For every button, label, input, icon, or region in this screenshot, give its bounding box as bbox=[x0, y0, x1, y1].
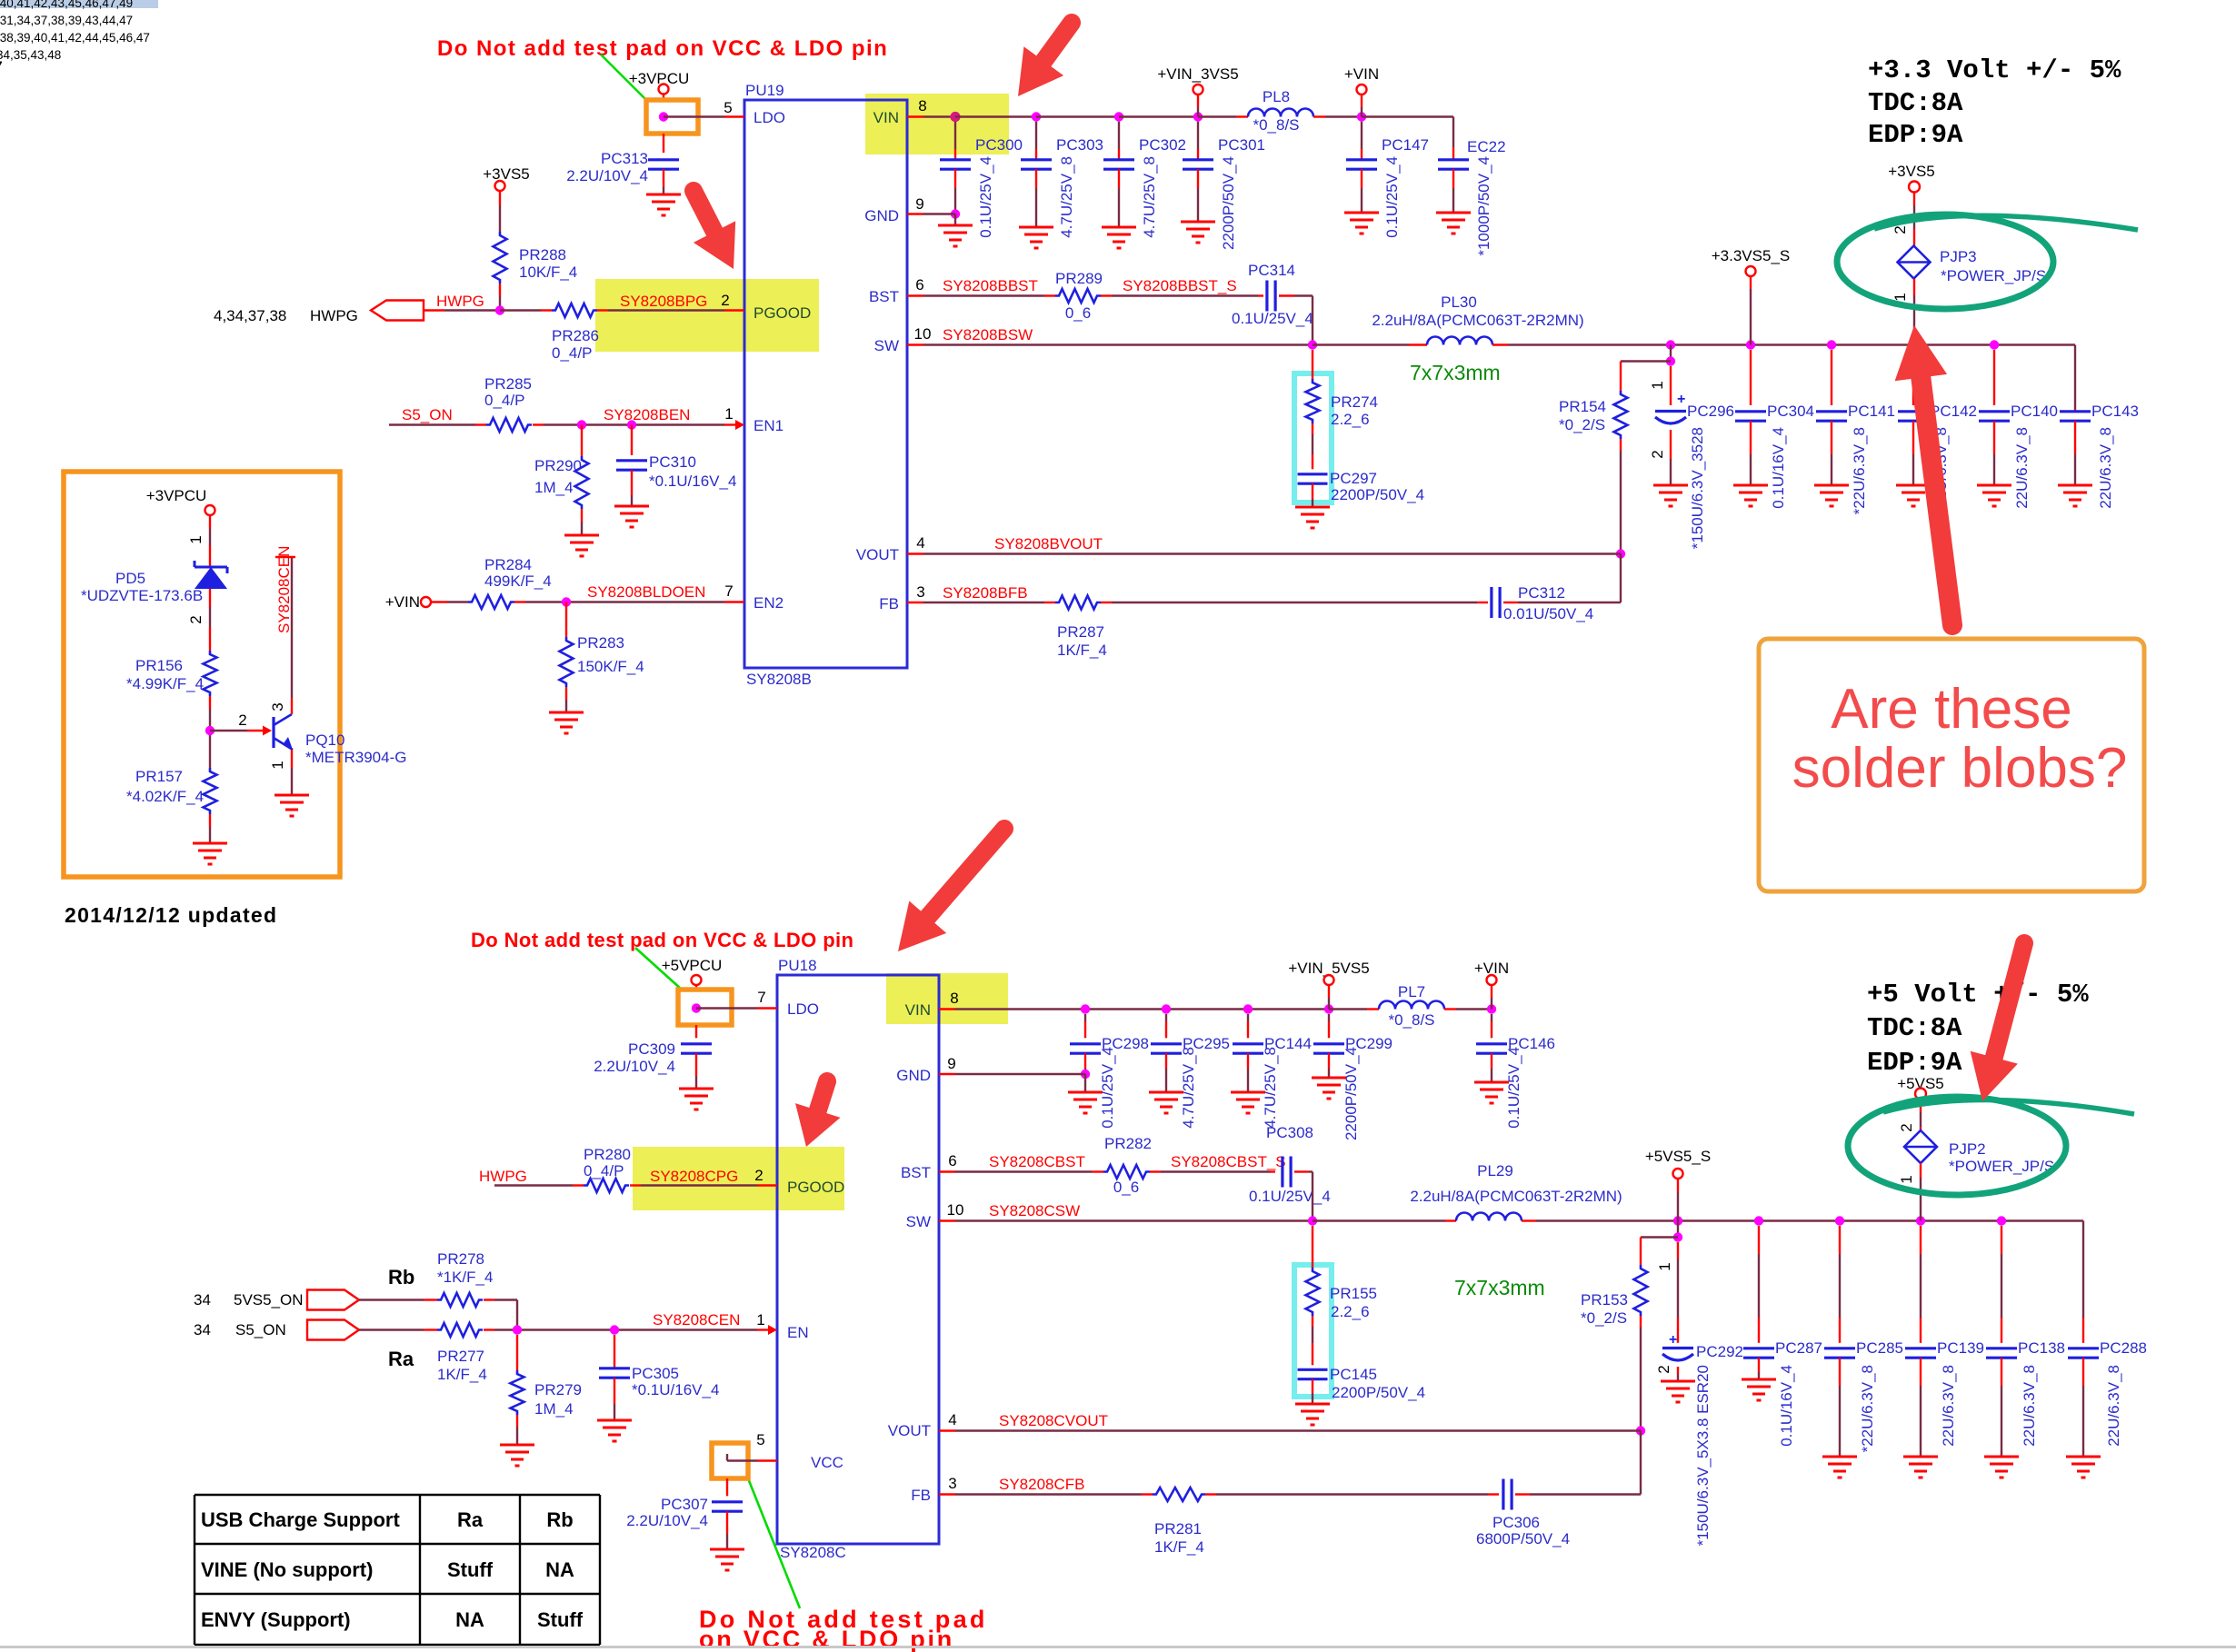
svg-text:EN: EN bbox=[787, 1324, 809, 1341]
svg-text:6: 6 bbox=[915, 276, 923, 294]
svg-text:5: 5 bbox=[756, 1431, 764, 1448]
svg-text:PR155: PR155 bbox=[1330, 1285, 1377, 1302]
svg-text:PQ10: PQ10 bbox=[305, 731, 344, 749]
svg-text:1: 1 bbox=[187, 535, 205, 543]
svg-text:PC306: PC306 bbox=[1492, 1514, 1540, 1531]
svg-text:PL8: PL8 bbox=[1263, 88, 1290, 105]
svg-text:1K/F_4: 1K/F_4 bbox=[1057, 642, 1107, 659]
svg-text:*0.1U/16V_4: *0.1U/16V_4 bbox=[632, 1381, 719, 1398]
svg-text:PR277: PR277 bbox=[437, 1348, 484, 1365]
svg-text:+3VPCU: +3VPCU bbox=[629, 70, 690, 87]
svg-text:+: + bbox=[1677, 392, 1685, 407]
svg-text:PC307: PC307 bbox=[661, 1496, 708, 1513]
svg-text:4.7U/25V_8: 4.7U/25V_8 bbox=[1180, 1047, 1197, 1129]
svg-text:PU19: PU19 bbox=[745, 82, 784, 99]
svg-text:PC308: PC308 bbox=[1266, 1124, 1313, 1141]
svg-text:+5 Volt +/- 5%: +5 Volt +/- 5% bbox=[1867, 980, 2089, 1010]
svg-text:PJP3: PJP3 bbox=[1940, 248, 1977, 265]
svg-text:0_6: 0_6 bbox=[1065, 304, 1091, 322]
svg-text:Rb: Rb bbox=[546, 1508, 573, 1531]
svg-text:PC285: PC285 bbox=[1856, 1339, 1903, 1357]
svg-text:+VIN: +VIN bbox=[385, 593, 420, 611]
svg-text:22U/6.3V_8: 22U/6.3V_8 bbox=[1940, 1365, 1957, 1447]
svg-text:NA: NA bbox=[455, 1608, 484, 1631]
svg-text:SY8208CPG: SY8208CPG bbox=[650, 1168, 738, 1185]
svg-text:Stuff: Stuff bbox=[537, 1608, 584, 1631]
svg-text:VOUT: VOUT bbox=[856, 546, 899, 563]
svg-text:2.2uH/8A(PCMC063T-2R2MN): 2.2uH/8A(PCMC063T-2R2MN) bbox=[1410, 1188, 1622, 1205]
svg-text:SY8208BBST_S: SY8208BBST_S bbox=[1123, 277, 1237, 294]
svg-text:6: 6 bbox=[948, 1152, 956, 1169]
svg-text:PR290: PR290 bbox=[534, 457, 582, 474]
svg-text:FB: FB bbox=[911, 1487, 931, 1504]
svg-text:SW: SW bbox=[874, 337, 899, 354]
svg-text:EDP:9A: EDP:9A bbox=[1868, 120, 1963, 150]
svg-text:4.7U/25V_8: 4.7U/25V_8 bbox=[1058, 156, 1075, 238]
svg-text:*0_8/S: *0_8/S bbox=[1253, 116, 1299, 134]
svg-text:0_4/P: 0_4/P bbox=[584, 1162, 624, 1179]
svg-text:PC296: PC296 bbox=[1687, 403, 1734, 420]
svg-text:5: 5 bbox=[724, 99, 732, 116]
svg-text:PR278: PR278 bbox=[437, 1250, 484, 1268]
svg-text:PC312: PC312 bbox=[1518, 584, 1565, 602]
svg-text:*METR3904-G: *METR3904-G bbox=[305, 749, 406, 766]
svg-text:HWPG: HWPG bbox=[310, 307, 358, 324]
svg-text:PR153: PR153 bbox=[1581, 1291, 1628, 1309]
svg-text:PC303: PC303 bbox=[1056, 136, 1103, 154]
svg-text:8: 8 bbox=[918, 97, 926, 114]
svg-text:4: 4 bbox=[948, 1411, 956, 1428]
svg-text:+3VS5: +3VS5 bbox=[1888, 163, 1935, 180]
svg-text:*22U/6.3V_8: *22U/6.3V_8 bbox=[1851, 427, 1868, 514]
svg-text:4,34,37,38: 4,34,37,38 bbox=[214, 307, 286, 324]
svg-text:PR288: PR288 bbox=[519, 246, 566, 264]
svg-text:SY8208BVOUT: SY8208BVOUT bbox=[994, 535, 1103, 552]
svg-text:2.2uH/8A(PCMC063T-2R2MN): 2.2uH/8A(PCMC063T-2R2MN) bbox=[1372, 312, 1583, 329]
svg-text:VCC: VCC bbox=[811, 1454, 843, 1471]
svg-text:SY8208B: SY8208B bbox=[746, 671, 812, 688]
svg-text:0.1U/25V_4: 0.1U/25V_4 bbox=[977, 156, 994, 238]
svg-text:2: 2 bbox=[238, 712, 246, 729]
svg-text:PC297: PC297 bbox=[1330, 470, 1377, 487]
svg-text:34: 34 bbox=[194, 1291, 211, 1309]
svg-text:34,35,43,48: 34,35,43,48 bbox=[0, 48, 61, 62]
svg-text:SY8208CEN: SY8208CEN bbox=[653, 1311, 740, 1329]
svg-text:SY8208CSW: SY8208CSW bbox=[989, 1202, 1080, 1219]
svg-text:8: 8 bbox=[950, 990, 958, 1007]
svg-text:0.1U/25V_4: 0.1U/25V_4 bbox=[1383, 156, 1401, 238]
svg-text:ENVY (Support): ENVY (Support) bbox=[201, 1608, 351, 1631]
svg-text:PC288: PC288 bbox=[2100, 1339, 2147, 1357]
svg-text:0.1U/16V_4: 0.1U/16V_4 bbox=[1778, 1365, 1795, 1447]
svg-text:+3VPCU: +3VPCU bbox=[146, 487, 207, 504]
svg-text:PR286: PR286 bbox=[552, 327, 599, 344]
svg-text:2200P/50V_4: 2200P/50V_4 bbox=[1332, 1384, 1425, 1401]
svg-text:BST: BST bbox=[869, 288, 899, 305]
svg-text:2: 2 bbox=[187, 615, 205, 623]
svg-text:+3.3VS5_S: +3.3VS5_S bbox=[1712, 247, 1791, 264]
svg-text:SY8208BEN: SY8208BEN bbox=[604, 406, 690, 423]
svg-text:34: 34 bbox=[194, 1321, 211, 1339]
svg-text:PL7: PL7 bbox=[1398, 983, 1425, 1000]
svg-text:*0_2/S: *0_2/S bbox=[1559, 416, 1605, 433]
svg-text:PC313: PC313 bbox=[601, 150, 648, 167]
svg-text:PC304: PC304 bbox=[1767, 403, 1814, 420]
svg-text:0.1U/25V_4: 0.1U/25V_4 bbox=[1099, 1047, 1116, 1129]
svg-text:SY8208BBST: SY8208BBST bbox=[943, 277, 1038, 294]
svg-text:PC310: PC310 bbox=[649, 453, 696, 471]
svg-text:22U/6.3V_8: 22U/6.3V_8 bbox=[2105, 1365, 2122, 1447]
svg-text:SY8208C: SY8208C bbox=[780, 1544, 846, 1561]
svg-text:SY8208CFB: SY8208CFB bbox=[999, 1476, 1085, 1493]
svg-text:7: 7 bbox=[724, 582, 733, 600]
svg-text:2: 2 bbox=[1649, 450, 1666, 458]
svg-text:0.01U/50V_4: 0.01U/50V_4 bbox=[1503, 605, 1593, 622]
svg-text:1: 1 bbox=[1898, 1175, 1915, 1183]
svg-text:PR274: PR274 bbox=[1331, 393, 1378, 411]
svg-text:SY8208BSW: SY8208BSW bbox=[943, 326, 1033, 343]
svg-text:+VIN_3VS5: +VIN_3VS5 bbox=[1157, 65, 1238, 83]
svg-text:PGOOD: PGOOD bbox=[754, 304, 811, 322]
svg-text:4.7U/25V_8: 4.7U/25V_8 bbox=[1262, 1047, 1279, 1129]
svg-text:0.1U/16V_4: 0.1U/16V_4 bbox=[1770, 427, 1787, 509]
svg-text:PR156: PR156 bbox=[135, 657, 183, 674]
svg-text:EDP:9A: EDP:9A bbox=[1867, 1048, 1962, 1078]
svg-text:*UDZVTE-173.6B: *UDZVTE-173.6B bbox=[81, 587, 203, 604]
svg-text:SY8208CBST_S: SY8208CBST_S bbox=[1171, 1153, 1286, 1170]
svg-text:PC140: PC140 bbox=[2011, 403, 2058, 420]
svg-text:*1000P/50V_4: *1000P/50V_4 bbox=[1475, 156, 1492, 256]
svg-text:Rb: Rb bbox=[388, 1266, 414, 1289]
svg-text:BST: BST bbox=[901, 1164, 931, 1181]
svg-text:4.7U/25V_8: 4.7U/25V_8 bbox=[1141, 156, 1158, 238]
svg-text:EC22: EC22 bbox=[1467, 138, 1506, 155]
svg-text:PC305: PC305 bbox=[632, 1365, 679, 1382]
svg-text:1M_4: 1M_4 bbox=[534, 479, 574, 496]
svg-text:*150U/6.3V_5X3.8 ESR20: *150U/6.3V_5X3.8 ESR20 bbox=[1694, 1365, 1712, 1546]
svg-text:2.2U/10V_4: 2.2U/10V_4 bbox=[594, 1058, 675, 1075]
svg-text:SW: SW bbox=[906, 1213, 931, 1230]
svg-text:3: 3 bbox=[916, 583, 924, 601]
svg-text:+3VS5: +3VS5 bbox=[483, 165, 530, 183]
svg-text:Ra: Ra bbox=[457, 1508, 484, 1531]
svg-text:2200P/50V_4: 2200P/50V_4 bbox=[1220, 156, 1237, 250]
svg-text:PR289: PR289 bbox=[1055, 270, 1103, 287]
svg-text:1K/F_4: 1K/F_4 bbox=[1154, 1538, 1204, 1556]
svg-text:PR285: PR285 bbox=[484, 375, 532, 393]
svg-text:LDO: LDO bbox=[787, 1000, 819, 1018]
svg-text:10K/F_4: 10K/F_4 bbox=[519, 264, 577, 281]
svg-text:HWPG: HWPG bbox=[479, 1168, 527, 1185]
svg-text:VIN: VIN bbox=[873, 109, 899, 126]
svg-text:10: 10 bbox=[947, 1201, 964, 1219]
svg-text:PU18: PU18 bbox=[778, 957, 817, 974]
svg-text:PR280: PR280 bbox=[584, 1146, 631, 1163]
svg-text:PC143: PC143 bbox=[2091, 403, 2139, 420]
svg-text:PR287: PR287 bbox=[1057, 623, 1104, 641]
svg-text:*4.02K/F_4: *4.02K/F_4 bbox=[126, 788, 204, 805]
svg-text:7: 7 bbox=[0, 59, 3, 73]
svg-text:SY8208BFB: SY8208BFB bbox=[943, 584, 1028, 602]
svg-text:HWPG: HWPG bbox=[436, 293, 484, 310]
svg-text:0.1U/25V_4: 0.1U/25V_4 bbox=[1232, 310, 1313, 327]
svg-text:PC139: PC139 bbox=[1937, 1339, 1984, 1357]
svg-text:PC287: PC287 bbox=[1775, 1339, 1822, 1357]
svg-text:9: 9 bbox=[915, 195, 923, 213]
svg-text:2014/12/12 updated: 2014/12/12 updated bbox=[65, 903, 277, 927]
svg-text:2: 2 bbox=[754, 1167, 763, 1184]
svg-text:TDC:8A: TDC:8A bbox=[1868, 88, 1963, 118]
svg-text:1: 1 bbox=[1649, 381, 1666, 389]
svg-text:0_4/P: 0_4/P bbox=[484, 392, 524, 409]
svg-text:0_4/P: 0_4/P bbox=[552, 344, 592, 362]
svg-text:PR279: PR279 bbox=[534, 1381, 582, 1398]
svg-text:PC138: PC138 bbox=[2018, 1339, 2065, 1357]
svg-text:GND: GND bbox=[864, 207, 899, 224]
svg-text:SY8208BPG: SY8208BPG bbox=[620, 293, 707, 310]
svg-text:FB: FB bbox=[879, 595, 899, 612]
svg-text:VIN: VIN bbox=[905, 1001, 931, 1019]
svg-text:4: 4 bbox=[916, 534, 924, 552]
svg-text:PC301: PC301 bbox=[1218, 136, 1265, 154]
svg-text:PL30: PL30 bbox=[1441, 294, 1477, 311]
svg-text:SY8208CEN: SY8208CEN bbox=[275, 546, 293, 633]
svg-text:1: 1 bbox=[756, 1311, 764, 1329]
svg-text:22U/6.3V_8: 22U/6.3V_8 bbox=[2013, 427, 2031, 509]
svg-text:10: 10 bbox=[914, 325, 932, 343]
svg-text:VINE (No support): VINE (No support) bbox=[201, 1558, 373, 1581]
svg-text:PD5: PD5 bbox=[115, 570, 145, 587]
svg-text:PR154: PR154 bbox=[1559, 398, 1606, 415]
svg-text:+5VS5_S: +5VS5_S bbox=[1645, 1148, 1711, 1165]
svg-text:499K/F_4: 499K/F_4 bbox=[484, 572, 552, 590]
svg-text:S5_ON: S5_ON bbox=[402, 406, 453, 423]
svg-text:*4.99K/F_4: *4.99K/F_4 bbox=[126, 675, 204, 692]
svg-text:*150U/6.3V_3528: *150U/6.3V_3528 bbox=[1689, 427, 1706, 549]
svg-text:TDC:8A: TDC:8A bbox=[1867, 1013, 1962, 1043]
svg-text:,31,34,37,38,39,43,44,47: ,31,34,37,38,39,43,44,47 bbox=[0, 14, 133, 27]
svg-text:22U/6.3V_8: 22U/6.3V_8 bbox=[2021, 1365, 2038, 1447]
svg-text:EN1: EN1 bbox=[754, 417, 784, 434]
svg-text:1: 1 bbox=[269, 761, 286, 769]
svg-text:PR283: PR283 bbox=[577, 634, 624, 652]
svg-text:2: 2 bbox=[1898, 1123, 1915, 1131]
svg-text:PC145: PC145 bbox=[1330, 1366, 1377, 1383]
svg-text:3: 3 bbox=[948, 1475, 956, 1492]
svg-text:*0_2/S: *0_2/S bbox=[1581, 1309, 1627, 1327]
svg-text:+: + bbox=[1669, 1332, 1677, 1348]
svg-text:1: 1 bbox=[1892, 293, 1909, 301]
svg-text:1: 1 bbox=[724, 405, 733, 423]
svg-text:22U/6.3V_8: 22U/6.3V_8 bbox=[2097, 427, 2114, 509]
svg-text:7: 7 bbox=[757, 989, 765, 1006]
svg-text:*22U/6.3V_8: *22U/6.3V_8 bbox=[1859, 1365, 1876, 1452]
svg-text:6800P/50V_4: 6800P/50V_4 bbox=[1476, 1530, 1570, 1548]
svg-text:1: 1 bbox=[1656, 1262, 1673, 1270]
svg-text:SY8208CVOUT: SY8208CVOUT bbox=[999, 1412, 1108, 1429]
svg-text:PGOOD: PGOOD bbox=[787, 1179, 844, 1196]
svg-text:2.2_6: 2.2_6 bbox=[1331, 1303, 1370, 1320]
svg-text:0_6: 0_6 bbox=[1113, 1179, 1139, 1196]
svg-text:EN2: EN2 bbox=[754, 594, 784, 612]
svg-text:2: 2 bbox=[1655, 1365, 1672, 1373]
svg-text:7x7x3mm: 7x7x3mm bbox=[1454, 1276, 1545, 1299]
svg-text:0.1U/25V_4: 0.1U/25V_4 bbox=[1249, 1188, 1331, 1205]
svg-text:NA: NA bbox=[545, 1558, 574, 1581]
svg-text:1K/F_4: 1K/F_4 bbox=[437, 1366, 487, 1383]
svg-text:5VS5_ON: 5VS5_ON bbox=[234, 1291, 304, 1309]
svg-text:Do Not add test pad on VCC & L: Do Not add test pad on VCC & LDO pin bbox=[471, 929, 853, 951]
svg-text:2.2_6: 2.2_6 bbox=[1331, 411, 1370, 428]
svg-text:VOUT: VOUT bbox=[888, 1422, 931, 1439]
svg-text:*0.1U/16V_4: *0.1U/16V_4 bbox=[649, 473, 736, 490]
svg-text:150K/F_4: 150K/F_4 bbox=[577, 658, 644, 675]
svg-text:*POWER_JP/S: *POWER_JP/S bbox=[1949, 1158, 2054, 1175]
svg-text:2200P/50V_4: 2200P/50V_4 bbox=[1343, 1047, 1360, 1140]
svg-text:2200P/50V_4: 2200P/50V_4 bbox=[1331, 486, 1424, 503]
svg-text:2.2U/10V_4: 2.2U/10V_4 bbox=[566, 167, 648, 184]
svg-text:3: 3 bbox=[269, 702, 286, 711]
svg-text:Are these: Are these bbox=[1831, 678, 2071, 741]
svg-text:LDO: LDO bbox=[754, 109, 785, 126]
svg-text:,40,41,42,43,45,46,47,49: ,40,41,42,43,45,46,47,49 bbox=[0, 0, 133, 10]
svg-text:*POWER_JP/S: *POWER_JP/S bbox=[1941, 267, 2046, 284]
svg-text:PC292: PC292 bbox=[1696, 1343, 1743, 1360]
svg-text:PC302: PC302 bbox=[1139, 136, 1186, 154]
svg-text:PC309: PC309 bbox=[628, 1040, 675, 1058]
svg-text:Ra: Ra bbox=[388, 1348, 414, 1370]
svg-text:S5_ON: S5_ON bbox=[235, 1321, 286, 1339]
svg-text:PR282: PR282 bbox=[1104, 1135, 1152, 1152]
svg-text:PC300: PC300 bbox=[975, 136, 1023, 154]
svg-text:*0_8/S: *0_8/S bbox=[1388, 1011, 1434, 1029]
svg-text:PC141: PC141 bbox=[1848, 403, 1895, 420]
svg-text:GND: GND bbox=[896, 1067, 931, 1084]
svg-text:PJP2: PJP2 bbox=[1949, 1140, 1986, 1158]
svg-text:+5VPCU: +5VPCU bbox=[662, 957, 723, 974]
svg-text:USB Charge Support: USB Charge Support bbox=[201, 1508, 400, 1531]
svg-text:2.2U/10V_4: 2.2U/10V_4 bbox=[626, 1512, 708, 1529]
svg-text:PC147: PC147 bbox=[1382, 136, 1429, 154]
svg-text:solder blobs?: solder blobs? bbox=[1792, 737, 2128, 800]
svg-text:0.1U/25V_4: 0.1U/25V_4 bbox=[1505, 1047, 1522, 1129]
svg-text:Do Not add test pad on VCC & L: Do Not add test pad on VCC & LDO pin bbox=[437, 36, 888, 61]
svg-text:PR284: PR284 bbox=[484, 556, 532, 573]
svg-text:*1K/F_4: *1K/F_4 bbox=[437, 1269, 493, 1286]
svg-text:,38,39,40,41,42,44,45,46,47: ,38,39,40,41,42,44,45,46,47 bbox=[0, 31, 150, 45]
svg-text:PL29: PL29 bbox=[1477, 1162, 1513, 1179]
svg-text:9: 9 bbox=[947, 1055, 955, 1072]
svg-text:PC142: PC142 bbox=[1930, 403, 1977, 420]
svg-text:Stuff: Stuff bbox=[447, 1558, 494, 1581]
svg-text:PR281: PR281 bbox=[1154, 1520, 1202, 1538]
svg-text:2: 2 bbox=[1892, 225, 1909, 234]
svg-text:7x7x3mm: 7x7x3mm bbox=[1410, 361, 1501, 384]
svg-text:1M_4: 1M_4 bbox=[534, 1400, 574, 1418]
svg-text:2: 2 bbox=[721, 292, 729, 309]
svg-text:PR157: PR157 bbox=[135, 768, 183, 785]
svg-text:+3.3 Volt +/- 5%: +3.3 Volt +/- 5% bbox=[1868, 55, 2121, 85]
svg-text:SY8208BLDOEN: SY8208BLDOEN bbox=[587, 583, 705, 601]
svg-text:PC314: PC314 bbox=[1248, 262, 1295, 279]
svg-text:+VIN: +VIN bbox=[1344, 65, 1379, 83]
svg-text:SY8208CBST: SY8208CBST bbox=[989, 1153, 1085, 1170]
